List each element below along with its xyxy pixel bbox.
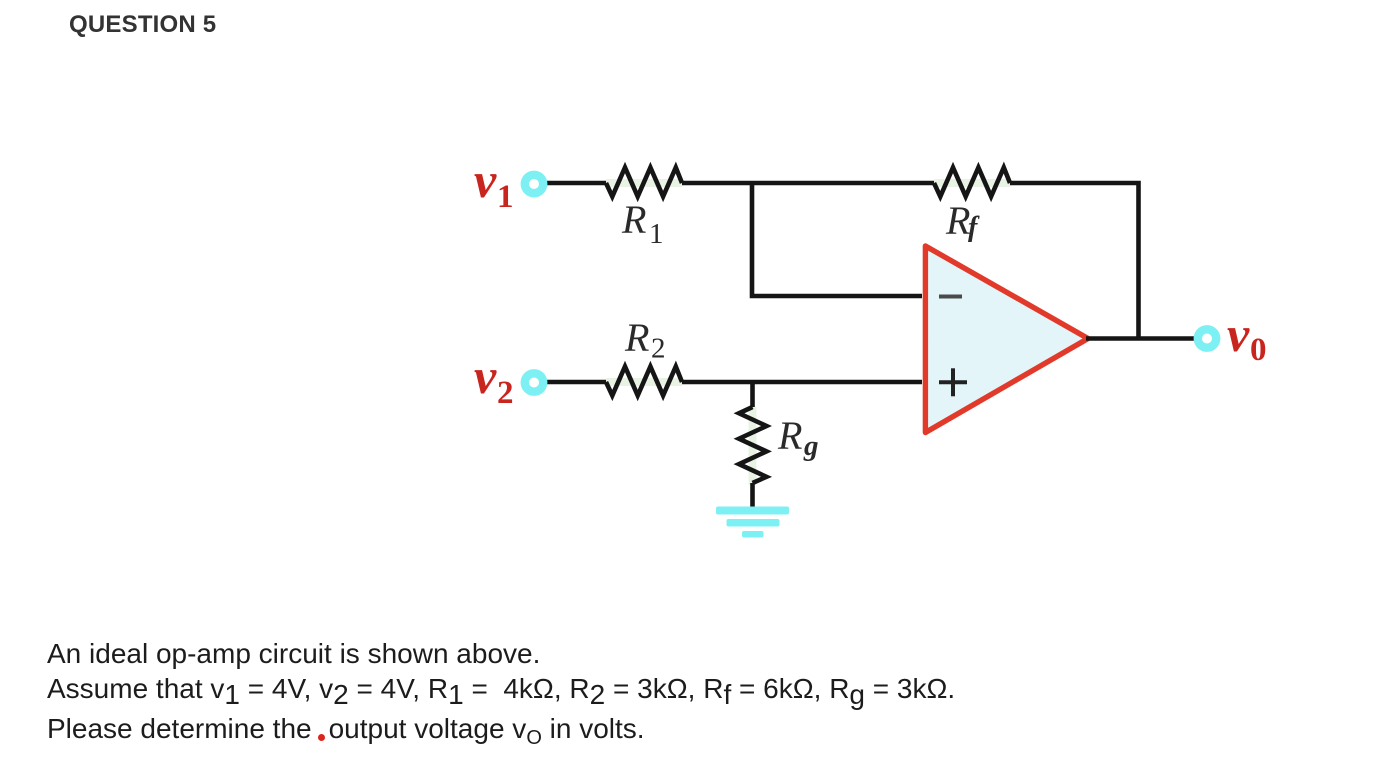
svg-text:v: v [474,348,497,404]
label R2 [624,315,666,365]
resistor R1 [606,168,682,197]
svg-text:R: R [777,413,802,458]
label R1 [621,197,664,250]
svg-text:R: R [624,315,649,360]
wire op-amp output to terminal vo [1086,336,1194,341]
svg-text:0: 0 [1250,332,1267,368]
svg-text:v: v [1227,306,1250,362]
resistor R2 [606,367,682,396]
svg-text:R: R [945,198,970,243]
terminal v2 [525,373,543,391]
op-amp U1 [925,246,1088,433]
svg-text:2: 2 [497,375,514,411]
wire Rf to output corner [1010,183,1139,339]
wire v2 input to R2 [546,380,606,385]
label Rg [777,413,819,462]
svg-text:g: g [803,430,819,462]
problem statement line 1 [47,638,540,670]
label v2 [474,348,514,411]
pin plus (noninverting input) [939,368,967,396]
resistor Rg [739,407,767,485]
wire v1 input to R1 [546,181,606,186]
terminal v1 [525,175,543,193]
terminal vo [1198,329,1216,347]
wire Rg to ground [750,483,755,508]
svg-text:f: f [968,212,980,243]
svg-text:v: v [474,152,497,208]
wire R2 to noninverting input [682,380,922,385]
heading QUESTION 5 [69,12,216,37]
wire node B down to Rg [750,382,755,407]
label vo [1227,306,1267,368]
problem statement line 2 [47,673,955,705]
svg-text:R: R [621,197,646,242]
pin minus (inverting input) [939,295,962,299]
svg-text:2: 2 [651,333,666,365]
problem statement line 3 [47,713,645,745]
svg-text:1: 1 [497,179,514,215]
svg-text:1: 1 [649,218,664,250]
ground [716,507,789,538]
wire R1 to node A and on to Rf [682,181,934,186]
label v1 [474,152,514,215]
resistor Rf [934,168,1010,197]
label Rf [945,198,980,243]
wire node A down to inverting input [752,183,922,296]
